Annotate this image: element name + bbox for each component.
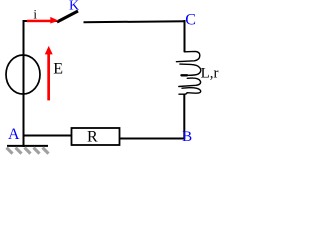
svg-text:K: K	[69, 0, 79, 14]
svg-text:E: E	[53, 61, 63, 78]
svg-text:R: R	[87, 129, 98, 146]
svg-text:A: A	[8, 126, 20, 143]
svg-text:B: B	[182, 129, 192, 145]
svg-text:L,r: L,r	[201, 65, 219, 81]
svg-text:C: C	[185, 12, 196, 29]
svg-text:i: i	[33, 7, 37, 22]
